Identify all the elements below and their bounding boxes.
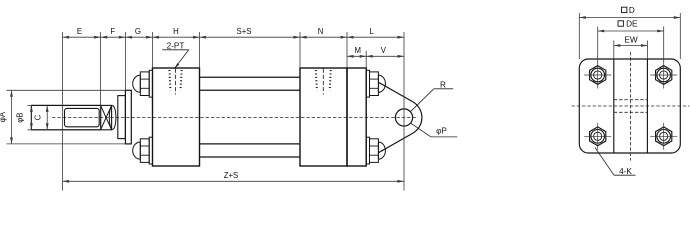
extension lines top row (63, 32, 404, 191)
head cap (153, 68, 200, 166)
tie rod nut K bottom-right (650, 123, 677, 150)
svg-text:N: N (318, 27, 324, 36)
tie rod nut K top-left (584, 62, 611, 89)
svg-text:DE: DE (626, 19, 638, 28)
piston rod (31, 105, 100, 129)
label 4-K with leader (595, 148, 636, 177)
dimension N (300, 27, 347, 39)
dimension Z+S (63, 171, 404, 183)
svg-text:R: R (440, 81, 446, 90)
clevis bottom edge (379, 133, 413, 153)
gland flange (125, 90, 131, 144)
svg-text:C: C (33, 114, 42, 120)
label phi-P with leader (411, 123, 458, 137)
tie rod nut head top (133, 70, 153, 97)
extension lines phi-B (28, 105, 32, 129)
tie rod nut head bottom (133, 137, 153, 164)
hidden clevis pin hole (614, 100, 648, 113)
spherical washer ellipse (109, 106, 116, 130)
svg-text:D: D (629, 6, 635, 15)
extension lines phi-A (7, 90, 126, 144)
svg-text:S+S: S+S (237, 27, 252, 36)
label 2-PT with leader (162, 42, 189, 69)
end cap (300, 68, 347, 166)
dimension L (347, 27, 404, 39)
clevis pin hole (395, 109, 412, 126)
tie rod bottom (200, 144, 301, 157)
end view horizontal centerline (572, 105, 690, 107)
dimension phi-A (0, 90, 13, 144)
dimension square-DE (598, 19, 664, 32)
dimension EW (614, 35, 648, 47)
dimension C (33, 105, 48, 129)
rod nut (crossed box) (101, 105, 112, 129)
clevis plate edges in end view (614, 59, 648, 153)
rod thread section (65, 108, 100, 126)
dimension S+S (200, 27, 301, 39)
port on end cap (316, 69, 331, 95)
label R with leader (410, 81, 453, 112)
svg-text:M: M (355, 46, 362, 55)
tie rod nut cap bottom (366, 137, 385, 164)
svg-text:φB: φB (15, 112, 24, 122)
tie rod nut K top-right (650, 62, 677, 89)
port 2-PT on head cap (169, 69, 181, 95)
rod gland plate (118, 96, 126, 139)
dimension phi-B (15, 105, 33, 129)
svg-text:EW: EW (624, 35, 637, 44)
svg-text:φA: φA (0, 111, 7, 122)
clevis top edge (379, 82, 413, 102)
svg-text:Z+S: Z+S (224, 171, 239, 180)
tie rod nut cap top (366, 70, 385, 97)
dimension F (101, 27, 126, 39)
svg-text:2-PT: 2-PT (167, 42, 185, 51)
svg-text:E: E (77, 27, 82, 36)
svg-text:4-K: 4-K (619, 167, 632, 176)
tie rod top (200, 77, 301, 90)
end view vertical centerline (630, 52, 632, 161)
dimension E (63, 27, 101, 39)
end view cap plate (579, 59, 680, 153)
centerline of cylinder (52, 117, 418, 119)
svg-text:F: F (110, 27, 115, 36)
svg-text:L: L (369, 27, 374, 36)
clevis radius arc (413, 102, 422, 133)
extension lines end view dims (579, 13, 680, 62)
dimension G (125, 27, 152, 39)
dimension M (347, 46, 366, 58)
clevis mounting plate (347, 68, 366, 166)
svg-text:G: G (135, 27, 141, 36)
tie rod nut K bottom-left (584, 123, 611, 150)
dimension square-D (579, 6, 680, 19)
svg-text:φP: φP (436, 126, 447, 135)
svg-text:V: V (381, 46, 387, 55)
svg-text:H: H (173, 27, 179, 36)
dimension V (366, 46, 404, 58)
dimension H (153, 27, 200, 39)
